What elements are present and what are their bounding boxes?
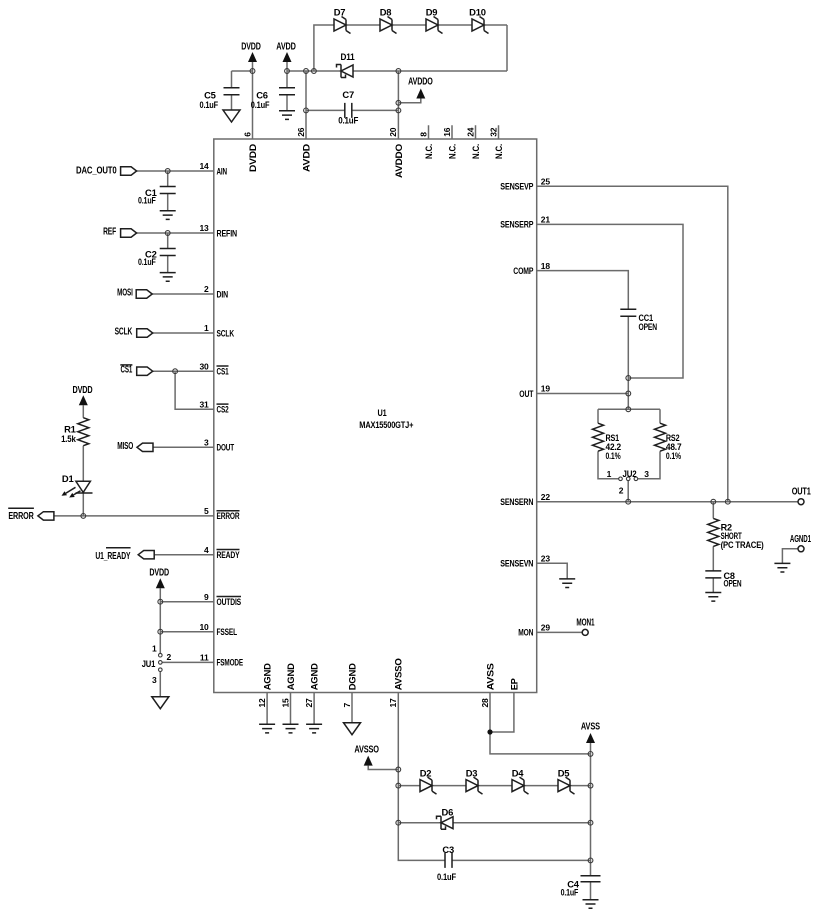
svg-text:D5: D5 — [558, 768, 570, 779]
svg-text:0.1uF: 0.1uF — [561, 886, 579, 897]
svg-text:0.1uF: 0.1uF — [338, 115, 358, 126]
svg-text:JU2: JU2 — [623, 468, 637, 479]
svg-text:1: 1 — [204, 323, 209, 333]
svg-text:18: 18 — [541, 261, 551, 271]
svg-text:31: 31 — [199, 400, 209, 410]
svg-text:(PC TRACE): (PC TRACE) — [721, 539, 764, 550]
svg-text:16: 16 — [442, 127, 452, 137]
svg-text:MISO: MISO — [117, 441, 133, 452]
svg-text:REF: REF — [103, 226, 116, 237]
svg-text:28: 28 — [480, 698, 490, 708]
svg-text:0.1uF: 0.1uF — [138, 256, 156, 267]
svg-text:SENSERP: SENSERP — [500, 219, 533, 230]
svg-text:AVDDO: AVDDO — [408, 76, 433, 87]
svg-text:CS1: CS1 — [217, 366, 229, 377]
svg-text:AVSSO: AVSSO — [393, 658, 404, 690]
svg-text:26: 26 — [296, 127, 306, 137]
svg-text:N.C.: N.C. — [446, 144, 457, 159]
svg-text:14: 14 — [199, 161, 209, 171]
svg-text:MOSI: MOSI — [117, 288, 133, 299]
svg-text:0.1%: 0.1% — [606, 450, 622, 461]
svg-text:AVDD: AVDD — [276, 42, 296, 53]
svg-text:U1_READY: U1_READY — [95, 551, 130, 562]
svg-text:AGND: AGND — [262, 663, 273, 690]
svg-text:FSSEL: FSSEL — [217, 626, 238, 637]
svg-text:20: 20 — [388, 127, 398, 137]
svg-text:DOUT: DOUT — [217, 442, 235, 453]
svg-text:5: 5 — [204, 506, 209, 516]
svg-text:D10: D10 — [469, 7, 486, 18]
svg-text:READY: READY — [217, 549, 241, 560]
svg-text:SENSEVN: SENSEVN — [500, 558, 533, 569]
svg-text:DVDD: DVDD — [149, 568, 169, 579]
svg-text:AVDDO: AVDDO — [393, 144, 404, 178]
svg-text:AGND1: AGND1 — [790, 534, 811, 545]
svg-text:MAX15500GTJ+: MAX15500GTJ+ — [359, 420, 413, 430]
svg-text:7: 7 — [342, 703, 352, 708]
svg-text:3: 3 — [204, 438, 209, 448]
svg-text:DIN: DIN — [217, 288, 229, 299]
svg-text:OUT1: OUT1 — [792, 487, 811, 498]
svg-text:10: 10 — [199, 622, 209, 632]
svg-text:0.1uF: 0.1uF — [138, 195, 156, 206]
svg-text:CS1: CS1 — [121, 365, 133, 376]
svg-text:ERROR: ERROR — [217, 510, 240, 521]
svg-text:29: 29 — [541, 623, 551, 633]
svg-text:8: 8 — [418, 132, 428, 137]
svg-text:19: 19 — [541, 384, 551, 394]
svg-text:17: 17 — [388, 698, 398, 708]
svg-text:D8: D8 — [380, 7, 392, 18]
svg-text:SCLK: SCLK — [115, 327, 133, 338]
svg-text:30: 30 — [199, 361, 209, 371]
svg-text:1: 1 — [607, 469, 612, 479]
svg-text:24: 24 — [465, 127, 475, 137]
svg-text:DGND: DGND — [346, 663, 357, 690]
svg-text:D7: D7 — [334, 7, 346, 18]
svg-text:22: 22 — [541, 492, 551, 502]
svg-text:3: 3 — [152, 675, 157, 685]
svg-text:3: 3 — [644, 469, 649, 479]
svg-text:C7: C7 — [342, 89, 354, 100]
svg-text:OUT: OUT — [519, 388, 533, 399]
svg-text:D1: D1 — [62, 473, 74, 484]
svg-text:13: 13 — [199, 223, 209, 233]
svg-text:OUTDIS: OUTDIS — [217, 596, 242, 607]
svg-text:0.1uF: 0.1uF — [251, 99, 270, 110]
svg-text:D2: D2 — [420, 768, 432, 779]
svg-text:N.C.: N.C. — [493, 144, 504, 159]
svg-text:AVSS: AVSS — [484, 663, 495, 690]
svg-text:2: 2 — [619, 486, 624, 496]
svg-text:9: 9 — [204, 592, 209, 602]
svg-text:N.C.: N.C. — [470, 144, 481, 159]
svg-text:EP: EP — [508, 678, 519, 690]
svg-text:AIN: AIN — [217, 165, 228, 176]
svg-text:DAC_OUT0: DAC_OUT0 — [76, 166, 117, 177]
svg-text:23: 23 — [541, 554, 551, 564]
svg-text:COMP: COMP — [513, 265, 533, 276]
svg-text:11: 11 — [200, 653, 209, 663]
svg-text:FSMODE: FSMODE — [217, 657, 244, 668]
svg-text:JU1: JU1 — [142, 658, 156, 669]
svg-text:REFIN: REFIN — [217, 227, 238, 238]
svg-text:2: 2 — [204, 284, 209, 294]
svg-text:OPEN: OPEN — [724, 578, 742, 589]
svg-text:DVDD: DVDD — [73, 385, 93, 396]
svg-text:D11: D11 — [341, 51, 355, 62]
svg-text:SENSERN: SENSERN — [500, 496, 533, 507]
svg-text:AVSSO: AVSSO — [354, 745, 379, 756]
svg-text:1.5k: 1.5k — [61, 433, 76, 444]
svg-text:D4: D4 — [512, 768, 525, 779]
svg-text:D9: D9 — [426, 7, 438, 18]
svg-text:12: 12 — [257, 698, 267, 708]
svg-text:2: 2 — [167, 652, 172, 662]
svg-text:1: 1 — [152, 644, 157, 654]
svg-text:OPEN: OPEN — [639, 321, 658, 332]
svg-text:27: 27 — [304, 698, 314, 708]
svg-text:15: 15 — [280, 698, 290, 708]
svg-text:D6: D6 — [441, 807, 453, 818]
svg-text:6: 6 — [242, 132, 252, 137]
svg-text:DVDD: DVDD — [247, 144, 258, 172]
svg-text:21: 21 — [541, 215, 551, 225]
svg-text:32: 32 — [488, 127, 498, 137]
svg-text:ERROR: ERROR — [8, 511, 34, 522]
svg-text:AVDD: AVDD — [300, 144, 311, 172]
svg-text:0.1uF: 0.1uF — [437, 871, 456, 882]
svg-text:D3: D3 — [466, 768, 478, 779]
svg-text:4: 4 — [204, 545, 209, 555]
svg-text:C3: C3 — [442, 844, 454, 855]
svg-text:U1: U1 — [378, 408, 387, 418]
svg-text:AGND: AGND — [309, 663, 320, 690]
svg-text:CS2: CS2 — [217, 404, 229, 415]
svg-text:0.1%: 0.1% — [666, 450, 682, 461]
svg-text:SCLK: SCLK — [217, 327, 235, 338]
svg-text:DVDD: DVDD — [241, 42, 261, 53]
svg-text:AGND: AGND — [285, 663, 296, 690]
svg-text:MON1: MON1 — [576, 617, 594, 628]
svg-text:SENSEVP: SENSEVP — [500, 181, 533, 192]
svg-text:MON: MON — [518, 627, 533, 638]
svg-text:0.1uF: 0.1uF — [200, 99, 219, 110]
svg-text:AVSS: AVSS — [581, 721, 600, 732]
svg-text:N.C.: N.C. — [423, 144, 434, 159]
svg-text:25: 25 — [541, 177, 551, 187]
